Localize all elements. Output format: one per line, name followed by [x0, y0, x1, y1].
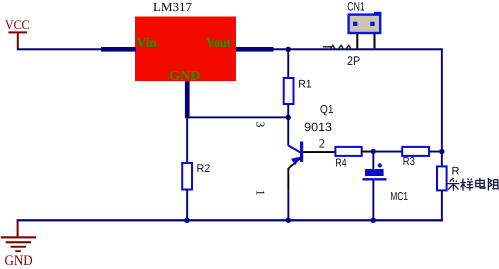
- wire bumps left of CN1: [323, 45, 351, 48]
- junction right column: [439, 149, 444, 154]
- svg-text:GND: GND: [5, 253, 33, 269]
- wire R4 to junction: [362, 151, 373, 153]
- capacitor MC1: [363, 152, 387, 221]
- resistor R3: [402, 147, 429, 156]
- wire junction to R3: [376, 151, 402, 153]
- junction R2 bottom: [184, 218, 189, 223]
- junction R1 bottom: [286, 115, 291, 120]
- svg-text:R3: R3: [403, 156, 415, 168]
- svg-text:2P: 2P: [347, 54, 360, 68]
- transistor Q1: [287, 117, 303, 220]
- svg-text:1: 1: [253, 190, 267, 196]
- svg-text:MC1: MC1: [390, 191, 408, 203]
- wire VCC to Vin pin: [17, 48, 102, 50]
- wire node 3 horizontal: [188, 116, 288, 118]
- svg-text:R: R: [452, 166, 460, 178]
- junction R4/R3/MC1: [371, 149, 376, 154]
- svg-text:R2: R2: [197, 163, 211, 175]
- resistor R (sampling): [437, 166, 447, 221]
- svg-text:Vout: Vout: [206, 36, 231, 51]
- svg-text:CN1: CN1: [347, 0, 365, 14]
- svg-text:LM317: LM317: [153, 0, 192, 14]
- junction at Vout/R1: [286, 47, 291, 52]
- svg-text:R1: R1: [298, 79, 311, 91]
- wire right vertical (top): [441, 48, 443, 166]
- junction emitter bottom: [286, 218, 291, 223]
- svg-text:GND: GND: [169, 69, 200, 84]
- power symbol VCC: [5, 17, 30, 49]
- svg-text:Vin: Vin: [136, 36, 157, 51]
- pin CN1-2: [374, 34, 376, 49]
- pin Vin (thick): [101, 47, 136, 52]
- svg-text:R4: R4: [335, 158, 347, 170]
- wire R3 to right column: [429, 151, 441, 153]
- label sampling resistor (Chinese): [447, 178, 499, 191]
- svg-text:9013: 9013: [304, 120, 332, 134]
- power symbol GND: [1, 220, 36, 269]
- regulator U1 LM317 body: [135, 17, 236, 84]
- junction MC1 bottom: [371, 218, 376, 223]
- resistor R1: [284, 50, 294, 117]
- resistor R2: [182, 118, 192, 220]
- pin CN1-1: [356, 34, 358, 49]
- connector CN1 body: [349, 12, 382, 33]
- svg-text:2: 2: [319, 137, 325, 151]
- bottom wire: [17, 219, 443, 221]
- svg-text:VCC: VCC: [5, 17, 30, 32]
- pin 2 wire (base): [303, 151, 335, 153]
- pin Vout (thick): [236, 47, 274, 52]
- svg-text:3: 3: [253, 121, 267, 127]
- pin GND (thick): [185, 81, 190, 118]
- svg-text:Q1: Q1: [320, 104, 334, 116]
- wire Vout to right corner: [274, 48, 443, 50]
- resistor R4: [335, 147, 361, 156]
